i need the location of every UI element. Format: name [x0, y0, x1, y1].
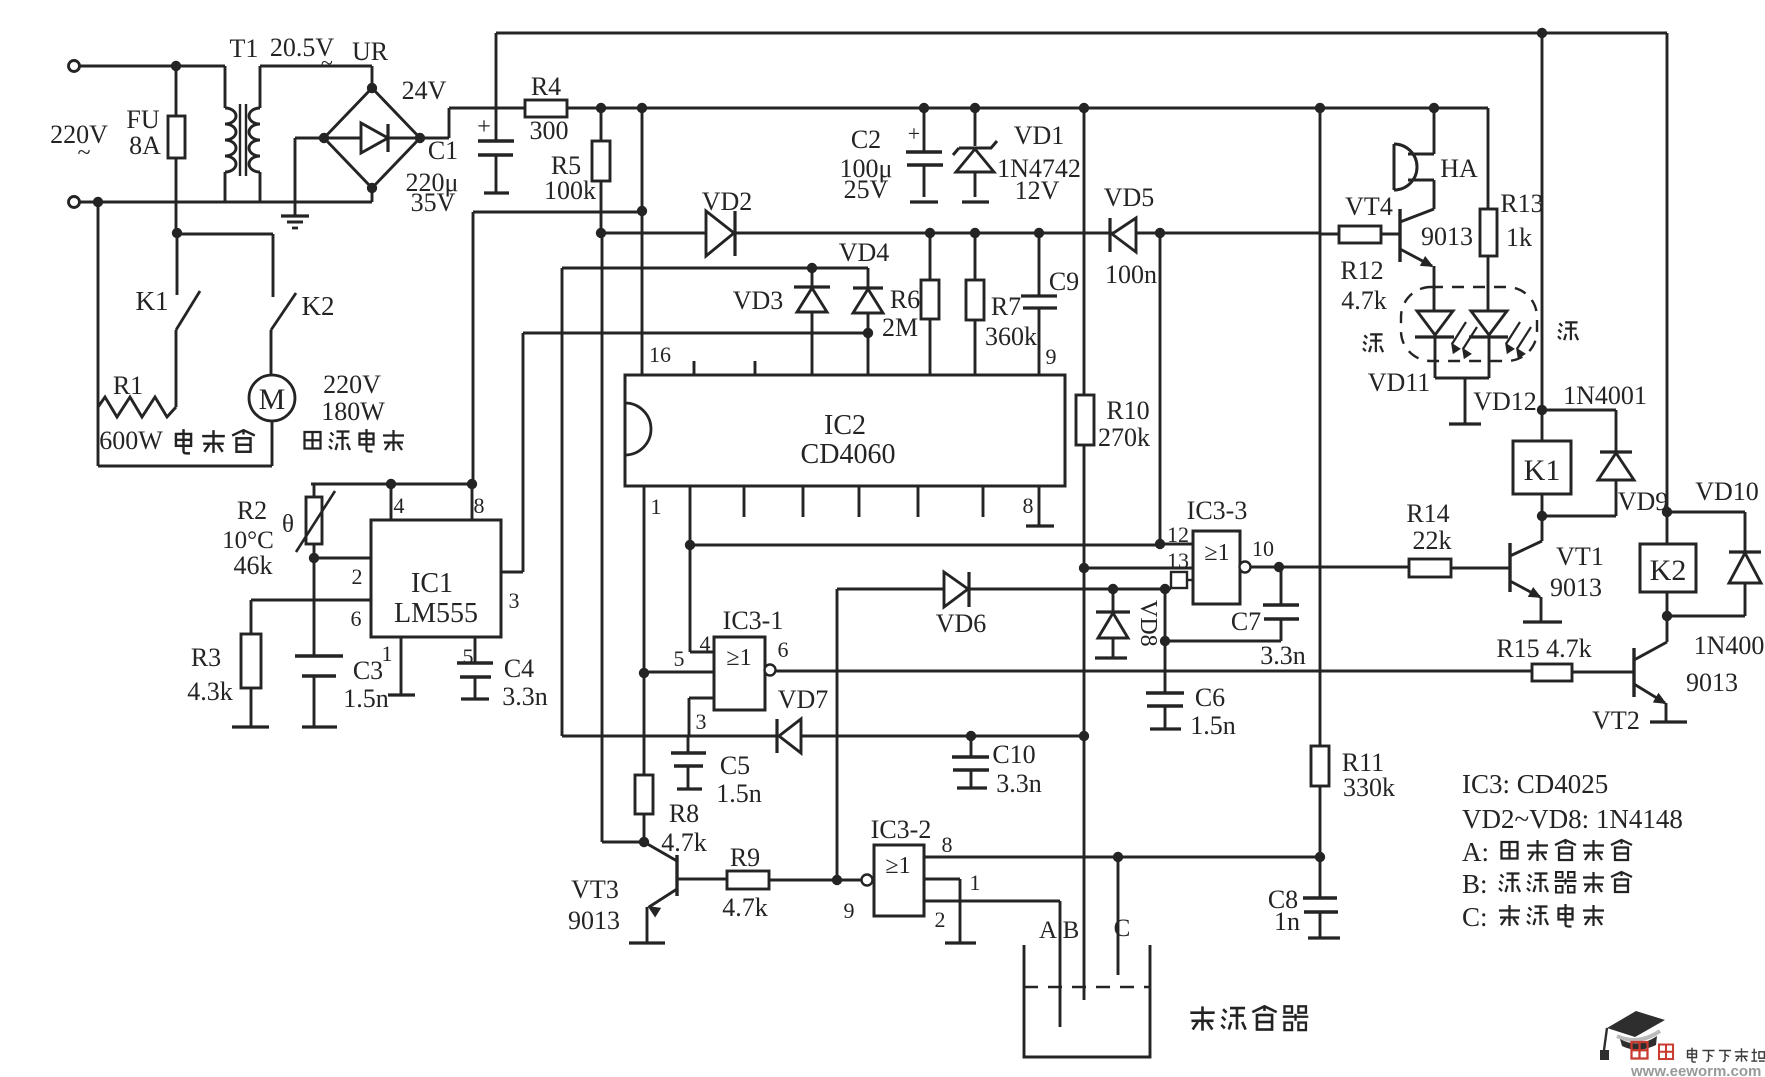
svg-text:9: 9 — [1046, 344, 1057, 369]
svg-text:2M: 2M — [882, 313, 918, 342]
capacitor C4 3.3n on pin 5 — [474, 637, 477, 663]
capacitor C3 1.5n — [313, 558, 316, 656]
node VD4 anode to IC1 pin3 wire — [863, 328, 873, 338]
note CJK B sensor shell — [1499, 874, 1520, 893]
node C10 top — [966, 731, 976, 741]
svg-text:R7: R7 — [991, 292, 1021, 321]
resistor R13 1k — [1487, 108, 1490, 209]
gate IC3-2 — [862, 875, 873, 886]
node branch to pin12 — [685, 540, 695, 550]
node bridge AC top — [367, 83, 377, 93]
svg-text:C10: C10 — [992, 740, 1035, 769]
label motor CJK 串激电机 — [305, 432, 321, 449]
wire secondary bottom lead — [259, 172, 262, 202]
svg-text:HA: HA — [1440, 154, 1478, 183]
svg-text:5: 5 — [674, 646, 685, 671]
capacitor C2 100u 25V — [919, 103, 929, 113]
wire pin 2 — [314, 557, 371, 560]
svg-text:100n: 100n — [1105, 260, 1157, 289]
svg-text:16: 16 — [649, 342, 671, 367]
note CJK A heater shell — [1502, 842, 1518, 859]
gate IC3-1 output bubble pin6 — [765, 665, 776, 676]
wire IC1 pin3 to VD4 — [523, 332, 868, 335]
gate IC3-3 — [1193, 531, 1240, 604]
svg-text:C1: C1 — [428, 136, 458, 165]
fuse FU 8A — [175, 66, 178, 233]
svg-text:C6: C6 — [1195, 683, 1225, 712]
svg-text:CD4060: CD4060 — [801, 439, 896, 470]
LED VD12 green — [1471, 311, 1507, 335]
terminal: 220V live input — [69, 61, 80, 72]
ground: bridge negative — [295, 137, 324, 140]
gate IC3-1 — [714, 637, 765, 710]
ground IC3-2 pin1 — [945, 941, 976, 944]
svg-text:13: 13 — [1167, 548, 1189, 573]
svg-text:3.3n: 3.3n — [996, 769, 1042, 798]
node pin12 junction — [1155, 539, 1165, 549]
svg-text:IC2: IC2 — [824, 410, 866, 441]
svg-text:R3: R3 — [191, 643, 221, 672]
wire bottom return — [98, 465, 272, 468]
svg-text:B: B — [1063, 917, 1080, 944]
bridge rectifier UR — [324, 88, 420, 188]
svg-text:4.7k: 4.7k — [1341, 286, 1387, 315]
capacitor C9 100n — [1034, 228, 1044, 238]
wire VD6 row — [837, 588, 944, 591]
svg-text:VD2~VD8: 1N4148: VD2~VD8: 1N4148 — [1462, 804, 1683, 834]
bridge internal diode — [324, 137, 361, 140]
logo site name CJK — [1688, 1048, 1697, 1062]
svg-text:9013: 9013 — [1550, 573, 1602, 602]
svg-text:R13: R13 — [1500, 189, 1543, 218]
svg-text:VT4: VT4 — [1345, 192, 1393, 221]
svg-text:VT3: VT3 — [571, 875, 619, 904]
relay contact K2 — [177, 233, 273, 236]
node B electrode branch — [1079, 731, 1089, 741]
wire IC2 pin out to IC3-3 pin12 and IC3-1 pin4 — [689, 486, 692, 652]
transistor VT2 9013 — [1632, 648, 1635, 697]
svg-text:≥1: ≥1 — [1204, 540, 1229, 566]
node pin4 — [386, 479, 396, 489]
capacitor C8 1n — [1319, 857, 1322, 898]
wire secondary top lead — [259, 66, 262, 108]
diode VD4 — [853, 286, 883, 289]
svg-text:R4: R4 — [531, 72, 561, 101]
svg-text:VD2: VD2 — [702, 187, 753, 216]
svg-text:R12: R12 — [1340, 256, 1383, 285]
label heater CJK 电热管 — [176, 429, 191, 453]
thermistor R2 46k — [313, 484, 316, 497]
svg-text:10: 10 — [1252, 536, 1274, 561]
svg-text:9: 9 — [844, 898, 855, 923]
relay coil K1 — [1513, 441, 1571, 494]
svg-text:VD12: VD12 — [1473, 387, 1537, 416]
node bridge DC plus — [415, 133, 425, 143]
wire VCC row pins 4 8 — [311, 483, 473, 486]
diode VD10 — [1667, 511, 1745, 514]
svg-text:4: 4 — [394, 493, 405, 518]
ground LED common — [1435, 377, 1489, 380]
svg-text:12V: 12V — [1015, 176, 1060, 205]
svg-text:24V: 24V — [402, 76, 447, 105]
relay coil K2 — [1666, 512, 1669, 544]
node K2 top — [1662, 507, 1672, 517]
node bridge DC minus — [319, 133, 329, 143]
container walls — [1024, 945, 1150, 1057]
svg-text:K2: K2 — [1650, 554, 1687, 587]
capacitor C6 1.5n — [1146, 691, 1184, 694]
wire live input to transformer — [80, 65, 225, 68]
node K1 bottom VT1 collector — [1537, 511, 1547, 521]
node pin11 — [1160, 584, 1170, 594]
svg-text:R15 4.7k: R15 4.7k — [1496, 634, 1591, 663]
svg-text:8A: 8A — [129, 131, 161, 160]
wire C5 VD7 row — [562, 735, 1086, 738]
svg-text:2: 2 — [935, 907, 946, 932]
svg-text:≥1: ≥1 — [885, 853, 910, 879]
node neutral junction — [93, 197, 103, 207]
svg-text:1n: 1n — [1274, 907, 1300, 936]
pin 11 stub — [1171, 572, 1187, 588]
svg-text:VD11: VD11 — [1368, 368, 1431, 397]
wire left long vertical to C5 row — [561, 268, 564, 736]
svg-text:9013: 9013 — [1421, 222, 1473, 251]
svg-text:+: + — [908, 121, 920, 146]
capacitor C5 1.5n — [687, 736, 690, 753]
svg-text:C9: C9 — [1049, 267, 1079, 296]
wire right edge down to K2 — [1666, 33, 1669, 512]
svg-text:FU: FU — [126, 105, 159, 134]
wire electrode A — [1059, 901, 1062, 1027]
svg-text:1: 1 — [651, 494, 662, 519]
svg-text:IC3-2: IC3-2 — [871, 815, 932, 844]
wire top rail to 24V rail and C1 — [495, 33, 498, 141]
wire long vertical to electrode B — [1083, 445, 1086, 1000]
svg-text:1.5n: 1.5n — [1190, 711, 1236, 740]
node IC1 supply tap — [637, 206, 647, 216]
node K1 top VD9 — [1537, 405, 1547, 415]
svg-text:+: + — [477, 114, 491, 140]
svg-text:270k: 270k — [1098, 423, 1150, 452]
node pin8 — [467, 479, 477, 489]
node R11 top on 24V rail — [1315, 103, 1325, 113]
svg-text:VD4: VD4 — [839, 238, 890, 267]
svg-text:C: C — [1114, 915, 1131, 942]
svg-text:8: 8 — [942, 832, 953, 857]
resistor R10 270k — [1083, 108, 1086, 395]
svg-text:C4: C4 — [504, 654, 534, 683]
svg-text:IC1: IC1 — [411, 568, 453, 599]
svg-text:9013: 9013 — [1686, 668, 1738, 697]
label container CJK 豆浆容器 — [1190, 1006, 1214, 1030]
svg-text:UR: UR — [352, 37, 389, 66]
svg-text:5: 5 — [463, 644, 474, 669]
svg-text:1: 1 — [970, 870, 981, 895]
svg-text:9013: 9013 — [568, 906, 620, 935]
node R5 top — [596, 103, 606, 113]
svg-text:VT2: VT2 — [1592, 706, 1640, 735]
svg-text:12: 12 — [1167, 522, 1189, 547]
transformer T1 secondary winding — [249, 108, 260, 172]
IC2 pin stubs top — [693, 361, 696, 375]
node K2 bottom VT2 collector — [1662, 611, 1672, 621]
svg-text:R10: R10 — [1106, 396, 1149, 425]
resistor R9 4.7k — [727, 871, 769, 889]
svg-text:1N400: 1N400 — [1694, 631, 1765, 660]
svg-text:IC3-1: IC3-1 — [723, 606, 784, 635]
resistor R14 22k — [1409, 559, 1451, 577]
svg-text:8: 8 — [1023, 493, 1034, 518]
svg-text:≥1: ≥1 — [726, 645, 751, 671]
relay contact K1 — [176, 233, 179, 295]
svg-text:2: 2 — [352, 564, 363, 589]
node pin13 junction — [1079, 563, 1089, 573]
LED light arrows — [1452, 322, 1466, 344]
resistor R7 360k — [970, 228, 980, 238]
label red CJK — [1363, 334, 1383, 352]
diode VD2 — [706, 211, 734, 256]
svg-text:C5: C5 — [720, 751, 750, 780]
LED VD11 red — [1417, 311, 1453, 335]
node R5 bottom — [596, 228, 606, 238]
label green CJK — [1558, 322, 1578, 340]
svg-text:C7: C7 — [1231, 607, 1261, 636]
wire pin 13 — [1084, 567, 1193, 570]
svg-text:R1: R1 — [113, 371, 143, 400]
svg-text:C2: C2 — [851, 125, 881, 154]
svg-text:6: 6 — [778, 637, 789, 662]
svg-text:R14: R14 — [1406, 499, 1449, 528]
svg-text:www.eeworm.com: www.eeworm.com — [1630, 1063, 1761, 1077]
wire pin 8 — [924, 856, 1320, 859]
svg-text:R8: R8 — [669, 799, 699, 828]
node electrode C branch — [1113, 852, 1123, 862]
svg-text:R9: R9 — [730, 843, 760, 872]
wire top supply rail — [496, 32, 1667, 35]
resistor R6 2M — [925, 228, 935, 238]
svg-text:1N4001: 1N4001 — [1563, 381, 1647, 410]
diode VD3 — [811, 268, 814, 287]
svg-text:1: 1 — [382, 641, 393, 666]
transistor VT1 9013 — [1508, 543, 1511, 592]
gate IC3-1 pin5 wire — [644, 671, 714, 674]
node K1 top — [172, 228, 182, 238]
wire down to IC1 pins 4-8 — [472, 212, 475, 484]
node bridge AC bottom — [367, 183, 377, 193]
svg-text:180W: 180W — [321, 397, 385, 426]
svg-text:10°C: 10°C — [222, 527, 274, 554]
svg-text:VD10: VD10 — [1695, 477, 1759, 506]
svg-text:B:: B: — [1462, 869, 1488, 899]
svg-text:~: ~ — [321, 50, 333, 75]
node R10 top on 24V rail — [1079, 103, 1089, 113]
svg-text:3: 3 — [696, 709, 707, 734]
node R2 bottom pin2 — [309, 553, 319, 563]
transistor VT3 9013 — [675, 855, 678, 896]
IC IC1 LM555 — [371, 520, 501, 637]
svg-text:220V: 220V — [323, 370, 381, 399]
ground IC1 pin 1 — [400, 637, 403, 695]
svg-text:K1: K1 — [1524, 454, 1561, 487]
svg-text:K2: K2 — [302, 291, 335, 321]
svg-text:θ: θ — [282, 511, 294, 538]
wire neutral down leg — [97, 202, 100, 466]
wire neutral input to transformer primary bottom — [80, 201, 228, 204]
svg-text:VD7: VD7 — [778, 685, 829, 714]
svg-text:22k: 22k — [1413, 526, 1452, 555]
transistor VT4 9013 — [1398, 209, 1401, 262]
svg-text:VD6: VD6 — [936, 609, 987, 638]
svg-text:8: 8 — [474, 493, 485, 518]
node HA top — [1429, 103, 1439, 113]
svg-text:3.3n: 3.3n — [1260, 641, 1306, 670]
svg-text:300: 300 — [530, 116, 569, 145]
ground VD8 — [1095, 656, 1127, 659]
svg-text:C3: C3 — [353, 656, 383, 685]
node IC2 supply branch — [637, 103, 647, 113]
logo graduation cap — [1607, 1011, 1665, 1037]
svg-text:T1: T1 — [230, 34, 259, 63]
liquid level dashed — [1024, 986, 1150, 989]
motor M — [249, 375, 295, 421]
gate IC3-1 pin3 — [689, 697, 714, 700]
svg-text:4.7k: 4.7k — [722, 893, 768, 922]
svg-text:IC3-3: IC3-3 — [1187, 496, 1248, 525]
terminal: 220V neutral input — [69, 197, 80, 208]
svg-text:1k: 1k — [1506, 223, 1532, 252]
svg-text:4.7k: 4.7k — [661, 828, 707, 857]
wire IC2 pin1 down to R8 — [643, 486, 646, 775]
ground VT1 — [1523, 620, 1562, 623]
wire down to IC3-3 pin 12 — [1159, 233, 1162, 544]
wire gate output long to R15 — [776, 670, 1532, 673]
LED package dashed outline — [1401, 287, 1537, 361]
svg-text:IC3: CD4025: IC3: CD4025 — [1462, 769, 1608, 799]
node live/fuse junction — [171, 61, 181, 71]
capacitor C7 3.3n — [1280, 567, 1283, 605]
transformer T1 core — [239, 104, 241, 176]
node top rail to K1 branch — [1537, 28, 1547, 38]
svg-text:VD5: VD5 — [1104, 183, 1155, 212]
ground VT2 — [1650, 720, 1687, 723]
svg-text:LM555: LM555 — [394, 598, 478, 629]
node VT3 collector — [639, 837, 649, 847]
svg-text:330k: 330k — [1343, 773, 1395, 802]
svg-text:1.5n: 1.5n — [716, 779, 762, 808]
svg-text:A:: A: — [1462, 837, 1489, 867]
svg-text:R6: R6 — [890, 285, 920, 314]
svg-text:35V: 35V — [411, 188, 456, 217]
diode VD7 — [775, 719, 778, 753]
node C7 bottom wire — [1160, 636, 1170, 646]
svg-text:M: M — [259, 383, 286, 416]
resistor R15 4.7k — [1532, 664, 1572, 681]
svg-text:6: 6 — [351, 606, 362, 631]
logo worm characters — [1632, 1042, 1648, 1059]
svg-text:K1: K1 — [136, 286, 169, 316]
resistor R4 300 — [525, 100, 567, 117]
resistor R1 heater — [98, 397, 176, 417]
svg-text:4: 4 — [700, 631, 711, 656]
node pin1 to IC3-1 pin5 — [639, 668, 649, 678]
ground VT3 emitter — [629, 941, 665, 944]
IC2 pin stubs bottom — [743, 486, 746, 517]
diode VD6 — [944, 572, 968, 607]
wire pin 12 — [1160, 543, 1193, 546]
wire top rail branch to K1 — [1541, 33, 1544, 441]
svg-text:25V: 25V — [844, 175, 889, 204]
node R11 bottom C8 — [1315, 852, 1325, 862]
diode VD5 100n — [1108, 218, 1111, 252]
zener VD1 1N4742 — [970, 103, 980, 113]
transformer T1 primary winding — [224, 66, 227, 108]
node VD8 top — [1108, 584, 1118, 594]
svg-text:VT1: VT1 — [1556, 542, 1604, 571]
node C7 top — [1274, 562, 1284, 572]
wire +24V rail — [420, 137, 449, 140]
svg-text:1.5n: 1.5n — [343, 684, 389, 713]
diode VD9 — [1600, 450, 1632, 453]
svg-text:360k: 360k — [985, 322, 1037, 351]
svg-text:A: A — [1039, 917, 1057, 944]
node VD6 branch to pin9 — [832, 875, 842, 885]
svg-text:3.3n: 3.3n — [502, 682, 548, 711]
wire VD6 anode down to IC3-2 pin9 node — [836, 589, 839, 880]
svg-text:VD1: VD1 — [1014, 121, 1065, 150]
wire IC1 output row y268 — [562, 267, 868, 270]
svg-text:600W: 600W — [99, 426, 163, 455]
wire pin 1 to ground — [924, 878, 960, 881]
note CJK C overflow electrode — [1499, 905, 1520, 926]
svg-text:R2: R2 — [237, 496, 267, 525]
IC IC2 CD4060 — [625, 375, 1065, 486]
ground IC2 pin 8 — [1038, 486, 1041, 526]
resistor R8 4.7k — [635, 775, 653, 814]
capacitor C1 220u 35V — [478, 139, 514, 142]
resistor R12 4.7k — [1320, 233, 1339, 236]
node VD3 cathode — [807, 263, 817, 273]
svg-text:C:: C: — [1462, 902, 1488, 932]
svg-text:~: ~ — [78, 140, 91, 166]
wire collector feed — [601, 233, 604, 842]
gate IC3-3 output bubble pin 10 — [1240, 562, 1251, 573]
svg-text:VD8: VD8 — [1135, 600, 1161, 647]
svg-text:VD9: VD9 — [1618, 487, 1669, 516]
svg-text:4.3k: 4.3k — [187, 677, 233, 706]
svg-text:46k: 46k — [234, 551, 273, 580]
svg-text:VD3: VD3 — [733, 286, 784, 315]
wire pin 6 and resistor R3 4.3k — [251, 599, 371, 602]
node VD5 to IC3-3 pin12 branch — [1155, 228, 1165, 238]
wire pin 2 to electrode A — [924, 900, 1060, 903]
svg-text:3: 3 — [509, 588, 520, 613]
svg-text:100k: 100k — [544, 176, 596, 205]
